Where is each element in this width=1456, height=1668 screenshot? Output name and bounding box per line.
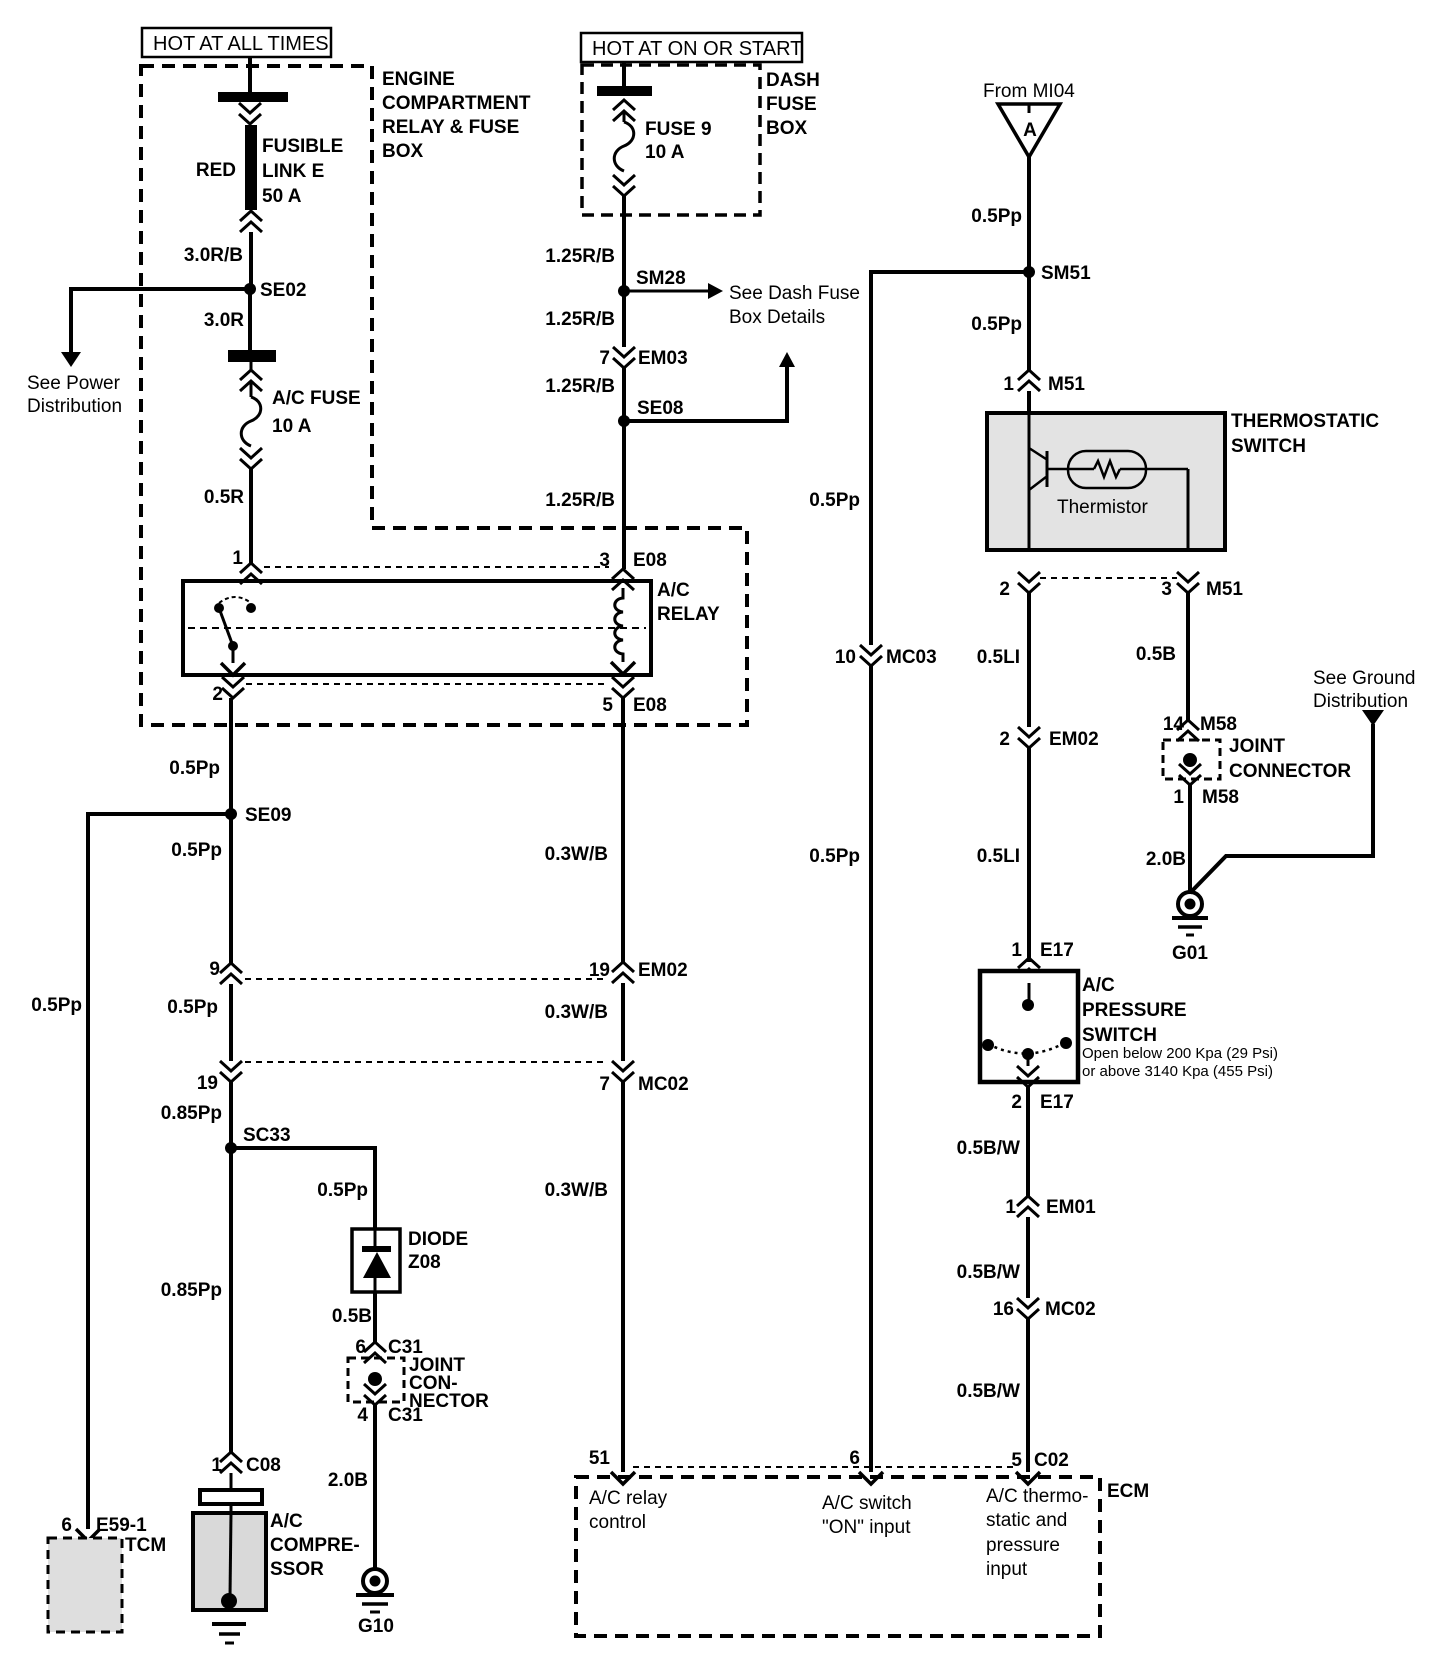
svg-text:MC02: MC02: [1045, 1299, 1096, 1320]
svg-text:0.85Pp: 0.85Pp: [161, 1280, 222, 1301]
svg-text:"ON" input: "ON" input: [822, 1517, 911, 1538]
label FUSIBLE LINK E 50 A: [262, 136, 343, 207]
arrow See Power Distribution: [61, 352, 81, 367]
thermostatic switch box: [987, 413, 1225, 550]
wire 0.3W/B to ECM pin 51: [621, 1082, 625, 1472]
svg-text:10 A: 10 A: [645, 142, 685, 163]
svg-text:SWITCH: SWITCH: [1082, 1025, 1157, 1046]
svg-text:0.5B: 0.5B: [1136, 644, 1176, 665]
svg-text:M58: M58: [1200, 714, 1237, 735]
svg-text:Open below 200 Kpa (29 Psi): Open below 200 Kpa (29 Psi): [1082, 1045, 1278, 1062]
svg-text:0.5Pp: 0.5Pp: [317, 1180, 368, 1201]
svg-text:ECM: ECM: [1107, 1481, 1149, 1502]
wire SM51 to A/C switch input: [871, 272, 1029, 645]
svg-text:A: A: [1023, 120, 1037, 141]
joint connector C31 (dashed box): [348, 1358, 404, 1405]
wire 0.5Pp from relay pin 2: [229, 698, 233, 963]
svg-text:HOT AT ON OR START: HOT AT ON OR START: [592, 38, 802, 60]
svg-text:0.5LI: 0.5LI: [977, 846, 1020, 867]
svg-text:0.5B/W: 0.5B/W: [957, 1381, 1020, 1402]
ECM pins dashed link: [633, 1466, 1018, 1468]
wire 1.25R/B to relay pin 3: [622, 421, 626, 569]
svg-text:M58: M58: [1202, 787, 1239, 808]
relay internal dashed divider: [188, 627, 646, 629]
svg-text:0.5B/W: 0.5B/W: [957, 1138, 1020, 1159]
connector dashed link 19-7: [245, 1061, 608, 1063]
A/C relay box: [183, 581, 651, 675]
svg-text:0.5LI: 0.5LI: [977, 647, 1020, 668]
svg-text:LINK E: LINK E: [262, 161, 324, 182]
dash fuse box (dashed outline): [582, 65, 760, 215]
svg-text:pressure: pressure: [986, 1535, 1060, 1556]
svg-text:CONNECTOR: CONNECTOR: [1229, 761, 1351, 782]
svg-text:SWITCH: SWITCH: [1231, 436, 1306, 457]
label DASH FUSE BOX: [766, 70, 820, 139]
wire 2.0B: [1188, 785, 1192, 893]
wire 0.5B/W: [1026, 1087, 1030, 1196]
svg-text:1.25R/B: 1.25R/B: [545, 309, 615, 330]
wire 0.5B from thermostatic pin 3: [1186, 593, 1190, 720]
wire feed from HOT AT ALL TIMES: [248, 57, 252, 92]
svg-text:PRESSURE: PRESSURE: [1082, 1000, 1187, 1021]
svg-text:control: control: [589, 1512, 646, 1533]
engine compartment relay & fuse box (dashed outline): [141, 66, 747, 725]
svg-text:M51: M51: [1048, 374, 1085, 395]
svg-text:0.3W/B: 0.3W/B: [545, 1180, 608, 1201]
svg-text:0.3W/B: 0.3W/B: [545, 844, 608, 865]
svg-text:1.25R/B: 1.25R/B: [545, 490, 615, 511]
A/C fuse 10A: [240, 362, 361, 469]
svg-text:SE09: SE09: [245, 805, 291, 826]
svg-text:0.85Pp: 0.85Pp: [161, 1103, 222, 1124]
connector chevrons below fusible link: [240, 211, 262, 232]
svg-text:C31: C31: [388, 1405, 423, 1426]
svg-text:0.5Pp: 0.5Pp: [169, 758, 220, 779]
svg-text:0.5Pp: 0.5Pp: [971, 314, 1022, 335]
wire 0.5Pp: [1027, 157, 1031, 370]
wire 3.0R: [248, 289, 252, 350]
svg-text:4: 4: [357, 1405, 368, 1426]
svg-text:6: 6: [61, 1515, 72, 1536]
svg-text:RELAY & FUSE: RELAY & FUSE: [382, 117, 519, 138]
svg-text:See Ground: See Ground: [1313, 668, 1415, 689]
header HOT AT ON OR START: [581, 33, 802, 62]
svg-text:or above 3140 Kpa (455 Psi): or above 3140 Kpa (455 Psi): [1082, 1063, 1273, 1080]
svg-text:0.3W/B: 0.3W/B: [545, 1002, 608, 1023]
wire to See Power Distribution: [71, 289, 250, 352]
connector dashed link pins 2-5: [246, 683, 609, 685]
svg-text:A/C switch: A/C switch: [822, 1493, 912, 1514]
svg-text:SM28: SM28: [636, 268, 686, 289]
svg-text:SSOR: SSOR: [270, 1559, 324, 1580]
connector dashed link pins 1-3: [264, 566, 609, 568]
svg-text:BOX: BOX: [766, 118, 808, 139]
svg-text:G01: G01: [1172, 943, 1208, 964]
svg-text:A/C FUSE: A/C FUSE: [272, 388, 361, 409]
svg-text:0.5B/W: 0.5B/W: [957, 1262, 1020, 1283]
wire branch SC33 to diode: [231, 1148, 375, 1229]
svg-text:50 A: 50 A: [262, 186, 302, 207]
wire 0.5B/W to ECM pin 5: [1026, 1319, 1030, 1472]
wire 1.25R/B: [622, 196, 626, 347]
compressor terminal bar: [230, 1473, 233, 1490]
bus bar dash fuse box: [597, 86, 652, 96]
svg-text:1: 1: [1005, 1197, 1016, 1218]
svg-text:9: 9: [209, 959, 220, 980]
svg-text:E08: E08: [633, 695, 667, 716]
svg-text:7: 7: [599, 348, 610, 369]
svg-text:See Power: See Power: [27, 373, 121, 394]
svg-text:input: input: [986, 1559, 1028, 1580]
wire 0.85Pp: [229, 1082, 233, 1452]
svg-text:A/C relay: A/C relay: [589, 1488, 668, 1509]
svg-text:2: 2: [999, 729, 1010, 750]
svg-text:ENGINE: ENGINE: [382, 69, 455, 90]
connector dashed link 9-19: [245, 978, 608, 980]
svg-text:A/C: A/C: [657, 580, 690, 601]
svg-text:6: 6: [355, 1337, 366, 1358]
svg-text:MC03: MC03: [886, 647, 937, 668]
wire 0.3W/B from relay pin 5: [621, 698, 625, 962]
svg-text:Thermistor: Thermistor: [1057, 497, 1148, 518]
svg-text:10: 10: [835, 647, 856, 668]
svg-text:TCM: TCM: [125, 1535, 166, 1556]
node SM51: [1023, 266, 1035, 278]
svg-text:HOT AT ALL TIMES: HOT AT ALL TIMES: [153, 33, 329, 55]
wire feed from HOT AT ON OR START: [622, 62, 626, 86]
node SE02: [244, 283, 256, 295]
arrow See Dash Fuse Box Details: [624, 283, 860, 328]
svg-text:See Dash Fuse: See Dash Fuse: [729, 283, 860, 304]
wire 0.5Pp: [229, 984, 233, 1061]
svg-text:10 A: 10 A: [272, 416, 312, 437]
svg-text:E17: E17: [1040, 1092, 1074, 1113]
connector chevrons below bus bar: [239, 103, 261, 124]
svg-text:FUSE 9: FUSE 9: [645, 119, 712, 140]
svg-text:51: 51: [589, 1448, 611, 1469]
relay switch contacts: [214, 597, 256, 675]
svg-text:Distribution: Distribution: [27, 396, 122, 417]
svg-text:SE02: SE02: [260, 280, 306, 301]
svg-text:1: 1: [1003, 374, 1014, 395]
svg-text:3.0R: 3.0R: [204, 310, 244, 331]
wire 0.5R: [249, 469, 253, 563]
node SM28: [618, 285, 630, 297]
svg-text:RELAY: RELAY: [657, 604, 720, 625]
svg-text:0.5Pp: 0.5Pp: [971, 206, 1022, 227]
svg-text:Box Details: Box Details: [729, 307, 825, 328]
svg-text:5: 5: [1011, 1450, 1022, 1471]
wire from SE09 to TCM: [88, 814, 231, 1529]
ECM (dashed box): [576, 1477, 1100, 1636]
svg-text:0.5B: 0.5B: [332, 1306, 372, 1327]
wire 0.5LI: [1027, 593, 1031, 727]
wire 0.5Pp to ECM pin 6: [869, 666, 873, 1472]
svg-text:2: 2: [999, 579, 1010, 600]
wire 0.3W/B: [621, 983, 625, 1061]
relay coil (pins 3-5): [615, 588, 623, 662]
svg-text:2: 2: [212, 684, 223, 705]
wire to See Ground Distribution: [1190, 724, 1373, 893]
svg-text:DIODE: DIODE: [408, 1229, 468, 1250]
svg-text:0.5Pp: 0.5Pp: [809, 846, 860, 867]
svg-text:JOINT: JOINT: [1229, 736, 1285, 757]
node SE08: [618, 415, 630, 427]
svg-text:COMPRE-: COMPRE-: [270, 1535, 360, 1556]
svg-text:1.25R/B: 1.25R/B: [545, 246, 615, 267]
svg-text:MC02: MC02: [638, 1074, 689, 1095]
svg-text:0.5Pp: 0.5Pp: [171, 840, 222, 861]
connector triangle A: [998, 104, 1060, 157]
fusible link E 50A (thick bar): [245, 125, 257, 210]
svg-text:FUSE: FUSE: [766, 94, 817, 115]
svg-text:M51: M51: [1206, 579, 1243, 600]
svg-text:6: 6: [849, 1448, 860, 1469]
svg-text:A/C: A/C: [270, 1511, 303, 1532]
svg-text:RED: RED: [196, 160, 236, 181]
svg-text:EM02: EM02: [638, 960, 688, 981]
svg-text:0.5Pp: 0.5Pp: [809, 490, 860, 511]
A/C compressor: [193, 1513, 266, 1643]
svg-text:G10: G10: [358, 1616, 394, 1637]
svg-text:static and: static and: [986, 1510, 1067, 1531]
ground G10: [356, 1569, 394, 1637]
svg-text:1.25R/B: 1.25R/B: [545, 376, 615, 397]
svg-text:A/C thermo-: A/C thermo-: [986, 1486, 1088, 1507]
svg-text:E59-1: E59-1: [96, 1515, 147, 1536]
thermostatic switch internals: [1029, 413, 1188, 550]
svg-text:19: 19: [197, 1073, 218, 1094]
A/C pressure switch box: [980, 971, 1078, 1082]
svg-text:E17: E17: [1040, 940, 1074, 961]
svg-text:5: 5: [602, 695, 613, 716]
svg-text:2.0B: 2.0B: [328, 1470, 368, 1491]
header HOT AT ALL TIMES: [142, 28, 331, 57]
svg-text:Z08: Z08: [408, 1252, 441, 1273]
svg-text:SM51: SM51: [1041, 263, 1091, 284]
svg-text:THERMOSTATIC: THERMOSTATIC: [1231, 411, 1379, 432]
wire 2.0B to G10: [373, 1405, 377, 1569]
wire 0.5LI: [1027, 748, 1031, 962]
label A/C RELAY: [657, 580, 720, 625]
joint connector M58 (dashed box): [1163, 740, 1220, 785]
svg-text:1: 1: [232, 548, 243, 569]
svg-text:0.5Pp: 0.5Pp: [167, 997, 218, 1018]
svg-text:19: 19: [589, 960, 610, 981]
svg-text:3: 3: [599, 550, 610, 571]
svg-text:EM01: EM01: [1046, 1197, 1096, 1218]
svg-text:C08: C08: [246, 1455, 281, 1476]
svg-text:From MI04: From MI04: [983, 81, 1075, 102]
wire 3.0R/B: [249, 232, 253, 289]
fuse 9 10A: [613, 100, 712, 196]
TCM (dashed box): [48, 1538, 122, 1632]
svg-text:E08: E08: [633, 550, 667, 571]
svg-text:A/C: A/C: [1082, 975, 1115, 996]
svg-text:16: 16: [993, 1299, 1014, 1320]
wire from SE08 up arrow: [624, 352, 795, 421]
pressure switch internals: [982, 983, 1072, 1087]
svg-text:BOX: BOX: [382, 141, 424, 162]
svg-text:Distribution: Distribution: [1313, 691, 1408, 712]
wire 0.5B: [373, 1292, 377, 1342]
svg-text:EM03: EM03: [638, 348, 688, 369]
svg-text:0.5Pp: 0.5Pp: [31, 995, 82, 1016]
svg-text:SC33: SC33: [243, 1125, 291, 1146]
svg-text:1: 1: [1011, 940, 1022, 961]
diode Z08: [352, 1229, 400, 1292]
svg-text:7: 7: [599, 1074, 610, 1095]
node SE09: [225, 808, 237, 820]
svg-text:EM02: EM02: [1049, 729, 1099, 750]
svg-text:FUSIBLE: FUSIBLE: [262, 136, 343, 157]
svg-text:0.5R: 0.5R: [204, 487, 244, 508]
svg-text:1: 1: [1173, 787, 1184, 808]
wire 0.5B/W: [1026, 1217, 1030, 1298]
svg-text:3: 3: [1161, 579, 1172, 600]
svg-text:DASH: DASH: [766, 70, 820, 91]
bus bar (A/C fuse feed): [228, 350, 276, 362]
ground G01: [1172, 892, 1208, 964]
arrow See Ground Distribution: [1362, 710, 1384, 726]
connector dashed link pins 2-3: [1040, 577, 1177, 579]
label ENGINE COMPARTMENT RELAY & FUSE BOX: [382, 69, 531, 162]
svg-text:SE08: SE08: [637, 398, 683, 419]
svg-text:COMPARTMENT: COMPARTMENT: [382, 93, 531, 114]
svg-text:C02: C02: [1034, 1450, 1069, 1471]
svg-text:2.0B: 2.0B: [1146, 849, 1186, 870]
bus bar (battery feed): [218, 92, 288, 102]
svg-text:2: 2: [1011, 1092, 1022, 1113]
node SC33: [225, 1142, 237, 1154]
svg-text:3.0R/B: 3.0R/B: [184, 245, 243, 266]
